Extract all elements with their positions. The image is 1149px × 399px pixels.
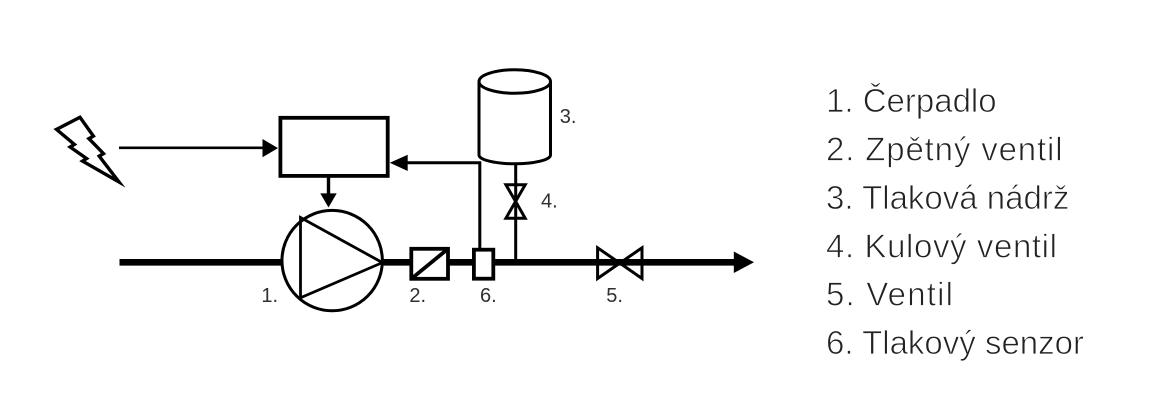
svg-text:3.: 3. (560, 106, 577, 128)
arrowhead down to pump (320, 193, 336, 207)
svg-text:4. Kulový ventil: 4. Kulový ventil (826, 227, 1058, 264)
svg-text:1. Čerpadlo: 1. Čerpadlo (826, 82, 997, 119)
lightning bolt (57, 117, 120, 182)
ball valve lower triangle (506, 201, 525, 218)
tank body (479, 82, 551, 164)
pump P1 circle (282, 210, 382, 310)
arrowhead into control box left (263, 139, 279, 157)
check valve diagonal (411, 249, 448, 279)
svg-text:1.: 1. (261, 285, 278, 307)
svg-text:4.: 4. (541, 191, 558, 213)
check valve box (411, 249, 448, 279)
control box (280, 118, 387, 176)
svg-text:5. Ventil: 5. Ventil (826, 276, 954, 313)
pipe arrowhead (734, 252, 754, 274)
svg-text:6. Tlakový senzor: 6. Tlakový senzor (826, 324, 1084, 361)
svg-text:2.: 2. (409, 285, 426, 307)
valve right triangle (620, 248, 642, 279)
wire: tank down to pipe (514, 165, 517, 260)
wire: sensor up and left to control box (406, 163, 480, 249)
pump triangle (301, 218, 383, 298)
svg-text:2. Zpětný ventil: 2. Zpětný ventil (826, 131, 1063, 168)
main pipe (120, 259, 738, 266)
arrowhead into control box right (390, 155, 408, 171)
wire: bolt to control box (119, 147, 264, 150)
svg-text:5.: 5. (606, 285, 623, 307)
svg-text:6.: 6. (480, 285, 497, 307)
tank top ellipse (479, 70, 551, 94)
pressure sensor box (474, 250, 493, 279)
wire: control box down to pump (327, 176, 330, 194)
svg-text:3. Tlaková nádrž: 3. Tlaková nádrž (826, 179, 1069, 216)
valve left triangle (598, 248, 620, 279)
ball valve upper triangle (506, 185, 525, 202)
